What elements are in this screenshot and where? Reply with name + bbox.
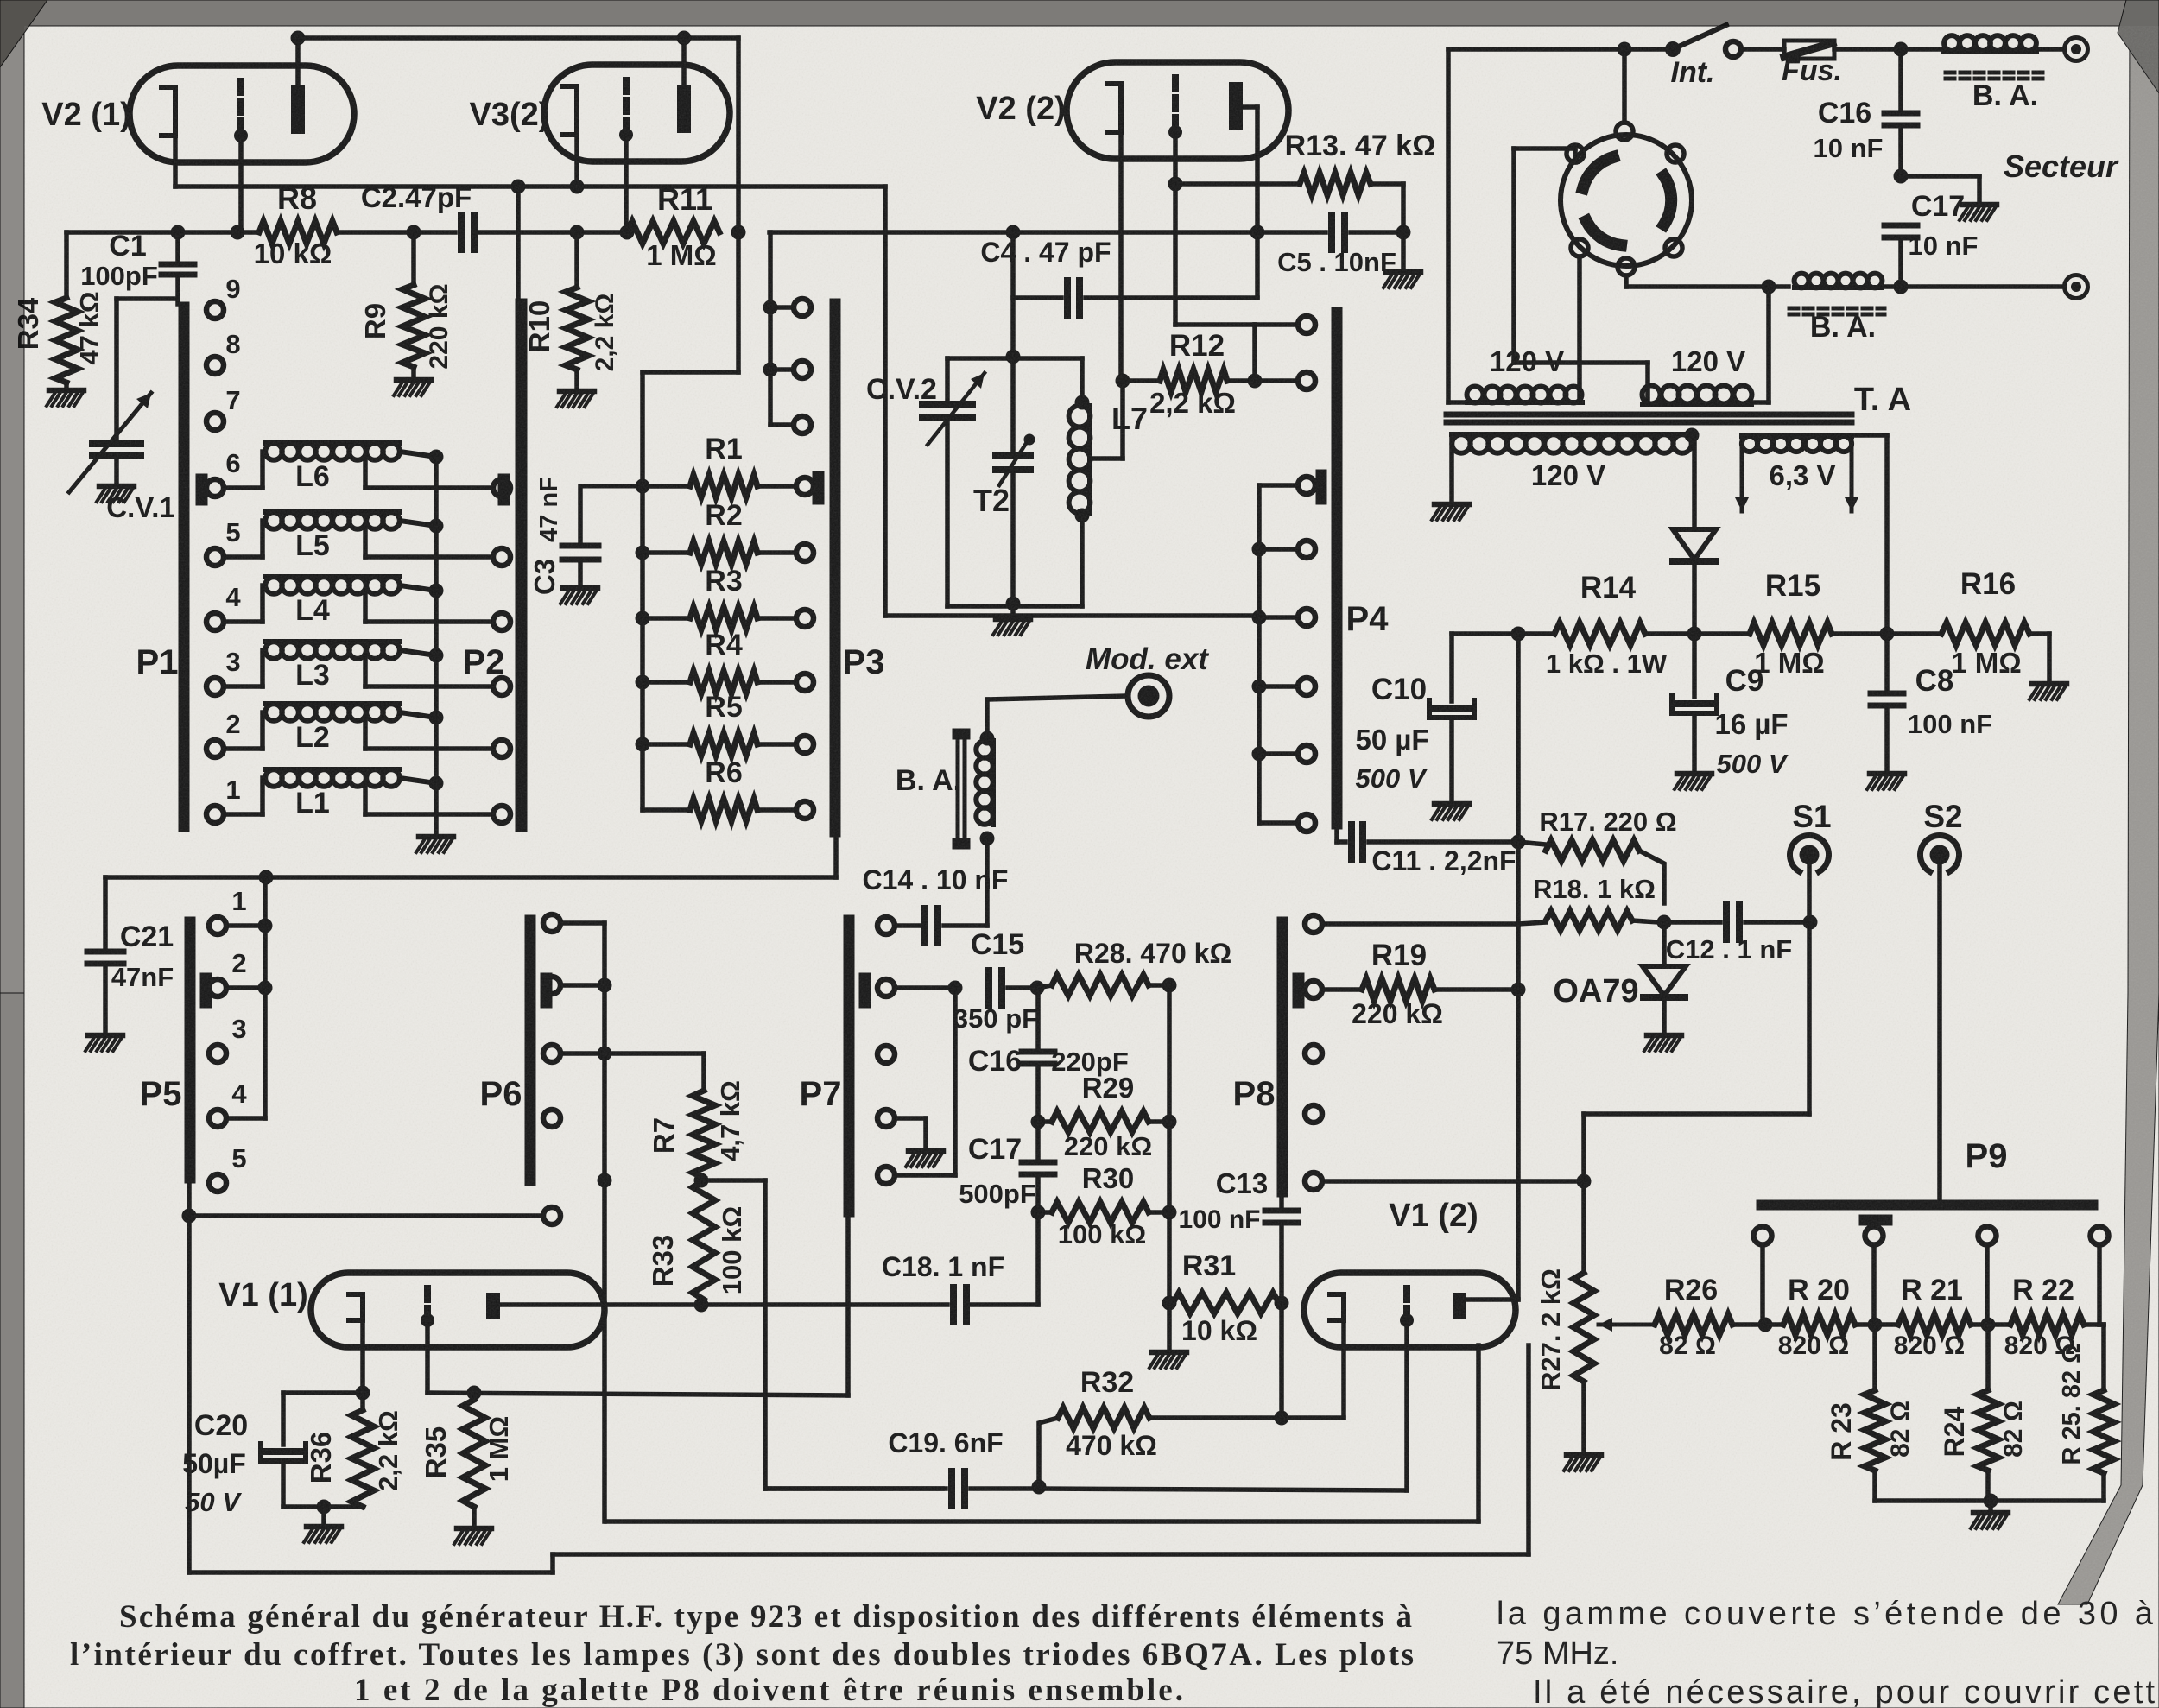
tube V1(1) [311,1273,605,1347]
contact P1 plot 5 [206,548,224,566]
wire V3 grid lead [624,131,629,232]
wire cathode bus y216 [175,184,885,189]
contact P3 upper [770,367,794,372]
wire V2(2) plate net [769,230,1257,235]
ground R34 [64,383,69,388]
wire P6 link [560,920,605,926]
resistor R23 [1872,1325,1877,1390]
coil L5 [224,554,263,560]
contact P1 plot 9 [206,301,224,319]
resistor R15 [1694,631,1750,636]
wire V2(2) anode lead [1244,104,1257,110]
capacitor C17 ladder [1035,1064,1041,1162]
choke B.A. secteur 2 [1795,285,1882,290]
ground C5 [1401,232,1406,269]
wire inner box [1573,149,1578,162]
wire heater to C8 [1852,433,1887,438]
ground C21 [88,1033,123,1039]
contact P6 [543,1207,560,1224]
wire V3 cathode lead [574,134,579,187]
arrow R27 wiper [1599,1323,1655,1327]
variable capacitor C.V.1 [117,296,175,301]
contact P5 plot 1 [209,917,226,934]
coil L7 [1079,358,1085,402]
wire B+ bus left [105,875,836,880]
ground coil bus [419,834,453,840]
wire R31 to cathode net [1279,1303,1284,1418]
wire P7 plot4 gnd [895,1116,926,1121]
wire P3 bottom stem [833,810,839,877]
wire P3 upper bus [768,232,773,425]
wire right drop to R11 [736,38,741,232]
wire anode bus to P4 [883,187,888,616]
contact P1 plot 2 [206,740,224,757]
wire V2(2) grid lead [1173,131,1178,184]
wire grid feed V1(2) [1039,1489,1407,1490]
wire V1(1) grid [425,1321,430,1393]
capacitor C20 [283,1390,363,1395]
ground R27 [1567,1452,1601,1458]
wire P9 plot2 [1871,1245,1877,1325]
capacitor C16 ladder [1035,988,1041,1052]
wire V1(2) cathode lead [1341,1320,1346,1418]
wire P4 left link [1252,325,1257,381]
wire bottom rail B [553,1552,1529,1557]
arrow heater 1 [1740,439,1744,511]
wire bottom rail C [606,1519,1478,1524]
wire P4 bus [1257,485,1262,823]
contact P5 plot 4 [209,1110,226,1127]
coil L4 [224,619,263,624]
wire ladder bus right [1167,985,1172,1303]
wire C2-R9-R10 [480,230,627,235]
capacitor C14 [895,923,919,928]
contact P6 [543,914,560,932]
coil L3 [224,684,263,689]
switch wafer P5 [185,917,195,1183]
wire P9 plot4 [2097,1245,2102,1325]
contact P1 plot 6 [206,479,224,497]
resistor R36 [360,1393,365,1410]
terminal secteur 2 [2065,275,2088,299]
resistor R2 [636,546,650,560]
contact P7 [877,1110,895,1127]
resistor R1 [636,479,650,494]
contact P1 plot 3 [206,678,224,695]
contact P4 [1259,820,1298,826]
resistor R24 [1985,1325,1991,1390]
contact P8 [1305,981,1322,998]
wire HT top [298,35,738,41]
wire V2(1) cathode lead [173,136,178,187]
contact P9 [1754,1227,1772,1245]
contact P4 [1259,483,1298,488]
resistor R14 [1511,627,1526,642]
contact P6 [543,977,560,994]
resistor R19 [1322,987,1362,992]
wire V1(2) anode lead [1466,1297,1518,1302]
ground C8 [1870,771,1904,777]
wire selector left contact [1577,256,1582,402]
wire bottom rail A [189,1570,553,1575]
wire selector bottom [1624,275,1629,287]
coil common bus [434,457,439,834]
contact P2 plot 4 [493,613,510,630]
contact P6 [543,1045,560,1062]
wire P9 plot1 [1760,1245,1765,1325]
wire P6 bus to rail [602,1180,607,1521]
wire outer box left [1446,49,1451,402]
ground C17 branch [1962,202,1997,208]
resistor R33 [694,1173,709,1188]
capacitor C2 [458,215,465,250]
tube V2(1) [130,66,354,162]
contact P4 R12 [1298,316,1315,333]
contact P3 upper [770,422,794,427]
winding TA primary 1 [1467,400,1582,405]
contact P2 plot 2 [493,740,510,757]
wire P5 link [263,877,268,1118]
diode OA79 [1662,922,1667,966]
contact P2 plot 3 [493,678,510,695]
resistor R9 [411,232,416,285]
wire HT bus down [1516,634,1521,842]
contact P9 [1979,1227,1997,1245]
contact P4 [1259,751,1298,756]
capacitor C4 [1013,295,1061,300]
wire V1(1) cathode [360,1320,365,1393]
wire P2 rotor stem [516,187,521,302]
ground T2 tank [1010,604,1016,617]
resistor R16 [1887,631,1941,636]
resistor R25 [2101,1325,2106,1390]
capacitor C19 [765,1486,946,1491]
wire selector right path [1766,287,1771,402]
jack Mod ext [1128,675,1169,717]
ground C9 [1677,771,1712,777]
diode rectifier [1692,435,1697,529]
resistor R12 [1116,374,1130,389]
switch wafer P8 [1277,917,1288,1197]
wire V2(1) grid lead [238,131,244,232]
wire mains top [1448,47,1667,52]
coil L1 [224,812,263,817]
coil L2 [224,746,263,751]
contact P1 plot 1 [206,806,224,823]
resistor R21 [1875,1322,1898,1327]
wire P7 rotor stem [845,1217,851,1395]
resistor R17 [1518,842,1546,845]
resistor R3 [636,611,650,626]
capacitor C1 [175,232,180,264]
ground TA secondary [1449,435,1454,502]
contact P7 [877,917,895,934]
wire selector top [1622,49,1627,123]
winding TA heater 6.3V [1742,433,1852,439]
resistor R34 [64,232,69,298]
capacitor C9 [1692,634,1697,697]
ground C.V.1 [99,484,134,490]
wire HT to R18 [1516,842,1521,924]
variable capacitor C.V.2 [945,358,950,404]
capacitor C11 [1334,829,1339,842]
resistor R6 [643,807,690,813]
capacitor C5 [1257,230,1326,235]
capacitor C13 [1279,1197,1284,1211]
wire C14 to BA [985,844,990,926]
contact P5 plot 3 [209,1045,226,1062]
rotary selector [1561,135,1692,266]
capacitor C8 [1884,634,1890,693]
resistor R28 [1037,985,1052,988]
capacitor C18 [950,1287,957,1322]
wire P7 plot5 link [895,1173,955,1178]
wire V1(1) anode lead [493,1302,698,1307]
wire P5 rotor down [187,1183,192,1216]
core T.A [1447,412,1852,418]
fuse Fus [1741,47,1784,52]
wire tank feed riser [1010,232,1016,357]
resistor R4 [636,675,650,690]
wire BA2 to terminal [1882,284,2064,289]
switch wafer P4 [1332,307,1342,829]
contact P4 [1259,615,1298,620]
wire L7 tap [1092,456,1123,461]
resistor R8 [259,221,337,244]
winding TA primary 2 [1643,402,1751,407]
trimmer T2 [1010,357,1016,456]
wire P9 plot3 [1985,1245,1990,1325]
switch wafer P7 [844,915,854,1217]
contact P9 [2091,1227,2109,1245]
jack S1 [1800,845,1820,865]
contact P2 plot 6 [493,479,510,497]
contact P4 [1259,547,1298,552]
switch wafer P6 [525,915,535,1186]
wire grid rail y1613 [427,1393,848,1395]
terminal secteur 1 [2036,47,2064,52]
resistor R13 [1175,181,1300,187]
contact P6 [543,1110,560,1127]
contact P3 upper [770,305,794,310]
wire BA to jack [985,699,990,738]
ground R31 [1167,1303,1172,1350]
resistor R35 [472,1393,477,1400]
contact P7 [877,1046,895,1063]
ground R9 [411,367,416,377]
resistor R32 [1149,1415,1282,1420]
capacitor C21 [103,877,108,952]
contact P8 [1305,1173,1322,1190]
wire V2(2) cathode lead [1118,134,1124,381]
ground OA79 [1647,1033,1681,1039]
resistor R31 [1162,1296,1177,1311]
contact P8 [1305,1105,1322,1123]
tube V1(2) [1304,1273,1516,1347]
wire fuse to BA [1834,47,1944,52]
choke B.A. secteur 1 [1944,48,2036,54]
resistor R11 [627,221,719,244]
ground R35 [472,1507,477,1526]
ground C3 [563,585,598,591]
resistor R26 [1655,1314,1732,1335]
resistor R22 [1988,1322,2010,1327]
switch Int [1665,41,1681,57]
contact P2 plot 1 [493,806,510,823]
wire tank bottom [947,604,1082,609]
wire tank top [947,356,1082,361]
wire P3 feed [736,232,741,372]
ground R16 [2032,681,2067,687]
wire R8-C2 [337,230,455,235]
contact P5 plot 2 [209,979,226,996]
wire P5 to P6 plot5 [189,1213,542,1218]
wire R19 junction up [1516,924,1521,990]
contact P1 plot 8 [206,357,224,374]
contact P9 [1865,1227,1884,1245]
wire P3 bus [640,486,645,810]
tube V2(2) [1067,62,1288,159]
capacitor C17 mains [1884,223,1917,229]
ground R10 [574,370,579,389]
capacitor C16 mains [1898,49,1903,113]
contact P4 [1259,684,1298,689]
contact P1 plot 7 [206,413,224,430]
contact P5 plot 5 [209,1174,226,1192]
contact P7 [877,1167,895,1184]
ground attenuator [1973,1510,2008,1516]
resistor R18 [1518,922,1546,924]
switch wafer P1 [179,302,189,832]
wire mains bottom [1626,284,1789,289]
winding TA secondary 120V [1452,432,1692,437]
resistor R5 [636,737,650,752]
contact P2 plot 5 [493,548,510,566]
capacitor C12 [1664,920,1720,925]
wire attenuator bottom [1875,1498,2104,1503]
capacitor C3 [580,484,643,489]
ground C10 [1434,801,1469,807]
arrow heater 2 [1850,439,1854,511]
capacitor C10 [1452,631,1518,636]
wire V3 anode lead [681,38,687,85]
wire main grid line y269 [66,230,259,235]
switch wafer P9 [1757,1200,2098,1210]
tube V3(2) [544,65,730,161]
choke B.A. modulation [956,736,959,844]
wire C18 riser [1035,1212,1041,1305]
ground P7 plot4 [909,1148,943,1154]
coil L6 [224,485,263,490]
contact P8 [1305,1045,1322,1062]
switch wafer P3 [830,299,840,837]
resistor R7 [605,1051,704,1056]
contact P1 plot 4 [206,613,224,630]
wire S1 branch [1807,922,1812,1114]
wire S2 to P9 [1937,865,1942,1202]
wire R7 node right [701,1178,765,1183]
wire P8 plot5 [1322,1179,1584,1184]
potentiometer R27 [1573,1273,1594,1382]
capacitor C15 [895,985,955,990]
contact P7 [877,979,895,996]
ground R36 C20 [321,1507,326,1524]
resistor R20 [1765,1322,1783,1327]
wire C17 gnd branch [1901,174,1979,179]
switch wafer P2 [516,299,527,832]
wire P8 plot1 [1322,921,1518,927]
resistor R10 [574,232,579,288]
jack S2 [1930,845,1950,865]
resistor R29 [1031,1115,1046,1129]
resistor R30 [1031,1205,1046,1220]
contact P8 [1305,915,1322,933]
